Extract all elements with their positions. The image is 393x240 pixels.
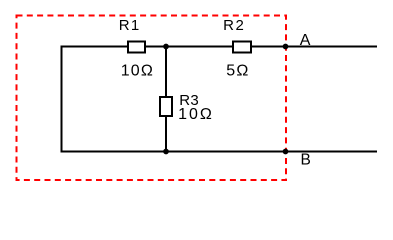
- resistor R2: [233, 42, 251, 53]
- dashed boundary box: [17, 16, 287, 181]
- wire R3 branch vertical: [165, 47, 167, 152]
- svg-text:5Ω: 5Ω: [226, 63, 249, 80]
- svg-text:10Ω: 10Ω: [121, 63, 154, 80]
- wire left vertical: [61, 46, 63, 153]
- node B terminal dot: [283, 149, 289, 155]
- svg-text:R1: R1: [119, 17, 141, 34]
- resistor R1: [128, 42, 145, 53]
- wire bottom horizontal: [62, 151, 378, 153]
- svg-text:R2: R2: [223, 17, 245, 34]
- resistor R3: [160, 97, 172, 116]
- svg-text:A: A: [300, 32, 311, 49]
- wire top horizontal: [62, 46, 378, 48]
- node A terminal dot: [283, 44, 289, 50]
- junction node (R3 bottom): [163, 149, 169, 155]
- svg-text:10Ω: 10Ω: [178, 106, 214, 123]
- svg-text:B: B: [301, 151, 311, 168]
- junction node (R1/R2/R3 top): [163, 44, 169, 50]
